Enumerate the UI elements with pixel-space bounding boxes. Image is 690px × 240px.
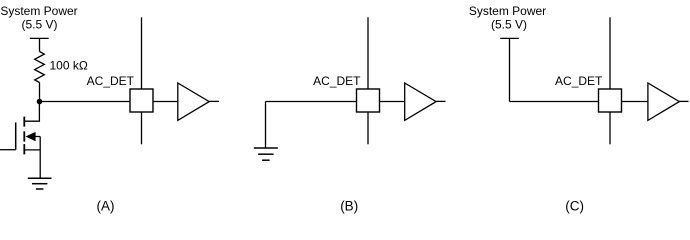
wire: pin stub above box (A) (141, 17, 143, 89)
Q1 middle channel segment (body) (23, 131, 25, 141)
power rail symbol 5.5 V (C) (500, 38, 519, 101)
wire: pin stub above box (C) (609, 17, 611, 89)
Q1 bottom channel segment (source) (23, 144, 25, 154)
wire: buffer output stub (C) (679, 100, 688, 102)
wire: buffer output stub (B) (436, 100, 445, 102)
wire: pin stub below box (B) (367, 112, 369, 144)
wire: pin stub above box (B) (367, 17, 369, 89)
resistor R1 zigzag (35, 52, 45, 83)
svg-text:AC_DET: AC_DET (87, 74, 135, 88)
wire: pin box to buffer (A) (153, 101, 178, 103)
Q1 top channel segment (drain) (23, 117, 25, 127)
svg-text:System Power: System Power (469, 4, 546, 18)
wire: pin stub below box (C) (609, 112, 611, 144)
wire: buffer output stub (A) (209, 100, 219, 102)
svg-text:System Power: System Power (0, 4, 77, 18)
buffer U3 (C) (648, 83, 679, 120)
svg-text:(C): (C) (565, 198, 584, 213)
svg-text:(5.5 V): (5.5 V) (491, 18, 527, 32)
wire: pin box to buffer (B) (380, 101, 406, 103)
ground symbol (A) (28, 178, 52, 189)
wire: node down to Q1 drain (24, 102, 39, 122)
svg-text:100 kΩ: 100 kΩ (50, 58, 88, 72)
wire: power down-corner to AC_DET pin box (C) (510, 101, 599, 103)
Q1 body lead (35, 136, 40, 138)
node junction dot (37, 99, 43, 105)
svg-text:(B): (B) (340, 198, 358, 213)
power rail symbol 5.5 V (A) (30, 38, 49, 51)
svg-text:(A): (A) (97, 198, 115, 213)
AC_DET pin box (A) (130, 89, 153, 112)
transistor Q1 (NMOS) (0, 117, 40, 178)
ground symbol (B) with stem (254, 102, 278, 161)
svg-text:(5.5 V): (5.5 V) (21, 18, 57, 32)
wire: pin box to buffer (C) (622, 101, 649, 103)
wire: Q1 body/source down to ground (39, 137, 41, 179)
svg-text:AC_DET: AC_DET (313, 74, 361, 88)
Q1 gate bar (15, 122, 17, 149)
buffer U2 (B) (405, 83, 436, 120)
wire: resistor bottom to node (39, 83, 41, 102)
AC_DET pin box (C) (599, 89, 622, 112)
Q1 source lead (24, 149, 40, 151)
AC_DET pin box (B) (357, 89, 380, 112)
Q1 gate lead wire (0, 149, 16, 151)
wire: ground to AC_DET pin box (B) (266, 101, 357, 103)
svg-text:AC_DET: AC_DET (555, 74, 603, 88)
Q1 body arrow (26, 132, 36, 141)
wire: node to AC_DET pin box (A) (40, 101, 131, 103)
wire: pin stub below box (A) (141, 112, 143, 144)
buffer U1 (A) (178, 83, 209, 120)
